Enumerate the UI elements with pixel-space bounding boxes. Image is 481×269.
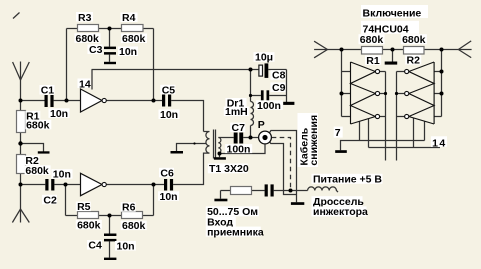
node inverter1 input [65, 99, 69, 103]
svg-text:снижения: снижения [308, 115, 320, 166]
svg-text:C7: C7 [232, 122, 246, 134]
wire R1 to R2 [20, 133, 22, 155]
wire pin14 stub right group [413, 118, 415, 148]
svg-text:100n: 100n [227, 143, 251, 155]
svg-text:680k: 680k [77, 219, 101, 231]
output stubs right group [397, 71, 405, 73]
svg-text:10n: 10n [50, 108, 68, 120]
label 10n [115, 241, 136, 251]
node left rail mid [340, 92, 344, 96]
ground bar receiver input [214, 199, 227, 202]
wire pin7 stub left group [359, 122, 361, 141]
node R3/R4 [108, 27, 112, 31]
svg-text:14: 14 [79, 78, 91, 90]
svg-text:P: P [258, 119, 265, 131]
wire to R3 [67, 28, 78, 30]
svg-text:680k: 680k [122, 220, 146, 232]
svg-text:680k: 680k [25, 165, 49, 177]
capacitor C2 plates [45, 179, 48, 191]
ground bar cable shield [291, 202, 304, 205]
label R4 [121, 13, 138, 23]
wire secondary gnd stub [219, 154, 221, 158]
wire arrow to R1 [328, 49, 362, 51]
capacitor C4 end bar [104, 258, 116, 260]
antenna top [13, 62, 30, 81]
svg-text:680k: 680k [26, 119, 50, 131]
svg-text:680k: 680k [122, 33, 146, 45]
label C7 [230, 123, 245, 133]
wire 10u right [268, 69, 286, 71]
svg-text:14: 14 [432, 137, 447, 149]
wire to R5 [66, 215, 78, 217]
svg-text:C5: C5 [162, 84, 176, 96]
label R5 [76, 202, 91, 212]
wire output rail 1 down [385, 72, 387, 161]
capacitor at receiver input plates [265, 184, 268, 196]
label 50...75 Ом [206, 206, 259, 216]
wire C9 right [269, 95, 286, 97]
label R1 [25, 111, 40, 121]
transformer core line 1 [213, 130, 215, 159]
label R2 [25, 156, 40, 166]
transformer T1 primary winding [204, 132, 210, 158]
node right rail top [440, 48, 444, 52]
svg-text:680k: 680k [360, 34, 384, 46]
wire node to C1 [21, 100, 45, 102]
label инжектора [312, 206, 367, 216]
resistor R3 [78, 25, 99, 32]
arrow right (to antenna) [458, 41, 471, 58]
wire cable line A [269, 131, 296, 203]
wire R2 to arrow [424, 49, 458, 51]
svg-text:10n: 10n [117, 241, 135, 253]
label 1mH [224, 107, 249, 117]
label 10n [49, 108, 70, 118]
capacitor C5 plates [162, 95, 165, 107]
wire feedback right vertical [153, 29, 155, 101]
node inverter2 input [64, 183, 68, 187]
label R6 [121, 202, 136, 212]
wire output rail 2 down [396, 72, 398, 161]
wire resistor to cap [252, 190, 265, 192]
label 14 [431, 136, 447, 147]
transformer T1 secondary winding [218, 138, 221, 154]
label C3 [88, 45, 103, 55]
svg-text:R5: R5 [77, 201, 91, 213]
label 74HCU04 [361, 21, 419, 34]
wire R1 to R2 [383, 49, 404, 51]
wire antenna to R1 through C1 node [20, 80, 22, 111]
wire R2 to bottom antenna [20, 174, 22, 209]
ground bar at R1/R2 node [38, 151, 50, 153]
svg-text:Включение: Включение [363, 8, 422, 20]
wire secondary bottom to plug [220, 144, 266, 153]
node right rail 1 [440, 70, 444, 74]
label Питание +5 В [312, 174, 383, 184]
label C9 [271, 83, 286, 93]
transformer primary tap to gnd [177, 144, 207, 152]
svg-text:1mH: 1mH [225, 106, 248, 118]
capacitor C3 plates [104, 47, 116, 50]
IC inverter group right (R2) [405, 62, 435, 124]
node antenna/C1 [19, 99, 23, 103]
wire input rail right [441, 50, 443, 117]
node inverter2 output [152, 183, 156, 187]
capacitor C9 plates [261, 90, 264, 100]
wire C9 left [251, 95, 261, 97]
wire receiver gnd stub [220, 191, 222, 199]
label C5 [160, 85, 175, 95]
label Т1 3Х20 [208, 164, 248, 174]
wire gnd bus pin7 [341, 141, 425, 151]
capacitor C8 10u negative plate [265, 63, 269, 78]
wire C6 to transformer bottom [173, 157, 203, 185]
resistor R6 [122, 212, 143, 219]
label C8 [271, 70, 286, 80]
svg-text:R2: R2 [407, 55, 421, 67]
node C9 tap [249, 94, 252, 97]
svg-text:10n: 10n [53, 169, 71, 181]
svg-text:C6: C6 [160, 167, 174, 179]
svg-text:7: 7 [335, 127, 341, 139]
svg-text:680k: 680k [402, 34, 426, 46]
svg-text:10n: 10n [119, 46, 137, 58]
svg-text:приемника: приемника [207, 226, 264, 238]
node cable/power [289, 189, 293, 193]
label Включение [361, 5, 428, 18]
label 680k [121, 221, 147, 231]
ground bar secondary bottom [214, 157, 226, 160]
inverter U1.1 top oscillator [81, 89, 107, 112]
svg-text:R1: R1 [366, 55, 380, 67]
resistor R2 [17, 155, 26, 174]
wire cable shield line C [270, 142, 297, 194]
ground bar pin7 [335, 150, 347, 153]
svg-text:C9: C9 [272, 82, 286, 94]
label R1 [365, 55, 381, 65]
wire inverter1 output [106, 100, 162, 102]
wire input rail left [341, 50, 343, 117]
capacitor C3 end bar [104, 62, 116, 64]
wire receiver input left [221, 190, 231, 192]
inverter U1.2 bottom oscillator [81, 173, 107, 195]
label 100n [256, 100, 283, 110]
capacitor C8 10u positive plate [259, 65, 263, 76]
ground bar C8/C9 [283, 102, 294, 105]
label Dr1 [226, 98, 247, 108]
input stubs right group [434, 71, 441, 73]
resistor R1 right block [362, 47, 383, 55]
plug P coax connector [259, 131, 272, 144]
label Вход [206, 217, 236, 227]
node +5V/10u [249, 68, 253, 72]
wire +5V node down to Dr1 [250, 70, 252, 102]
wire cap to cable node [274, 190, 291, 192]
inductor Dr1 [251, 102, 254, 126]
wire C2 left [21, 184, 46, 186]
antenna bottom [12, 209, 29, 223]
label C2 [42, 195, 57, 205]
svg-text:10μ: 10μ [255, 52, 273, 64]
capacitor C6 plates [164, 179, 167, 191]
wire 10u left [251, 69, 259, 71]
wire Dr1 bottom to C7 node [250, 126, 252, 138]
resistor 50...75 Ohm termination [231, 187, 252, 195]
wire inverter2 output [106, 184, 164, 186]
wire R4 right [143, 28, 153, 30]
node inverter1 output [152, 99, 156, 103]
arrow left (to antenna) [314, 41, 327, 58]
wire C3 bottom [109, 55, 111, 62]
wire C8/C9 gnd vertical [286, 70, 288, 103]
svg-text:C8: C8 [272, 70, 286, 82]
label 10n [118, 47, 138, 57]
svg-text:C2: C2 [43, 194, 57, 206]
label C1 [40, 85, 55, 95]
node C2 [19, 183, 23, 187]
svg-text:R3: R3 [78, 12, 92, 24]
inductor choke of injector [308, 187, 338, 192]
node R1/R2 gnd [18, 141, 22, 145]
wire +5V rail [92, 69, 251, 71]
node output rail 2 [395, 92, 398, 95]
node secondary bottom [218, 152, 222, 156]
svg-text:10n: 10n [160, 109, 178, 121]
label Дроссель [312, 196, 363, 206]
wire mid gnd stub [392, 50, 394, 62]
transformer core line 2 [215, 130, 217, 159]
label C6 [159, 168, 174, 178]
label 680k [76, 220, 102, 230]
capacitor C1 plates [45, 95, 48, 107]
svg-text:C3: C3 [89, 44, 103, 56]
svg-text:C4: C4 [88, 240, 102, 252]
label 10n [159, 110, 180, 120]
label 680k [401, 34, 427, 44]
stray mark top-left [13, 13, 20, 19]
wire secondary top to C7 [221, 137, 234, 139]
wire pin14 bus [369, 147, 441, 149]
svg-text:C1: C1 [41, 85, 55, 97]
label приемника [206, 227, 261, 237]
node R5/R6 [108, 214, 112, 218]
ground bar mid R1/R2 [385, 62, 398, 65]
wire feedback left vertical [66, 29, 68, 101]
wire pin7 stub right group [424, 121, 426, 140]
svg-text:Т1 3Х20: Т1 3Х20 [209, 163, 249, 175]
svg-text:100n: 100n [257, 100, 281, 112]
IC inverter group left (R1) [351, 62, 380, 124]
wire R6 right [143, 215, 154, 217]
capacitor C4 plates [104, 234, 116, 237]
wire C4 bottom [109, 241, 111, 257]
svg-text:10n: 10n [160, 191, 178, 203]
label 14 [78, 79, 91, 89]
label Kabel snizheniya (vertical) [298, 113, 319, 167]
node on tap [193, 142, 195, 144]
wire R5 to R6 [99, 215, 122, 217]
svg-text:Питание +5 В: Питание +5 В [313, 174, 382, 186]
resistor R2 right block [404, 47, 425, 55]
node left rail top [340, 48, 344, 52]
label 680k [121, 34, 147, 44]
capacitor C7 plates [234, 133, 238, 144]
label 100n [225, 144, 252, 153]
output stubs left group [380, 71, 386, 73]
label 10μ [254, 52, 275, 62]
label 10n [52, 169, 73, 179]
wire cable line B dashed [272, 138, 291, 191]
node Dr1/C7 [249, 136, 253, 140]
wire feedback2 left vertical [65, 185, 67, 216]
label 7 [334, 127, 343, 138]
resistor R5 [78, 212, 99, 219]
input stubs left group [342, 71, 351, 73]
svg-text:R6: R6 [122, 202, 136, 214]
wire C1 to inverter1 input [54, 100, 81, 102]
label 680k [25, 120, 51, 130]
label 680k [359, 34, 385, 44]
wire pin14 stub left group [368, 119, 370, 148]
wire R3 to R4 [99, 28, 122, 30]
node mid gnd [391, 48, 395, 52]
svg-text:R4: R4 [122, 12, 136, 24]
label 680k [25, 165, 51, 175]
label R3 [76, 12, 93, 22]
wire pin14 stub U1.1 [91, 70, 93, 90]
label C4 [87, 240, 102, 250]
label R2 [405, 55, 421, 65]
wire C3 top [109, 29, 111, 47]
resistor R1 [17, 111, 26, 133]
wire feedback2 right vertical [153, 185, 155, 216]
wire node to choke [291, 190, 308, 192]
svg-text:680k: 680k [76, 33, 100, 45]
wire C2 to inverter2 input [54, 184, 80, 186]
wire C4 top [109, 216, 111, 234]
svg-text:инжектора: инжектора [313, 206, 368, 218]
wire gnd stub at R1/R2 node [21, 144, 44, 152]
label 10n [158, 191, 179, 201]
wire C5 to transformer top [171, 101, 203, 132]
label 680k [75, 33, 101, 43]
node output rail 1 [384, 92, 387, 95]
ground bar transformer tap [171, 151, 184, 154]
resistor R4 [122, 25, 144, 32]
node right rail mid [440, 92, 444, 96]
wire C7 to plug [243, 137, 258, 139]
